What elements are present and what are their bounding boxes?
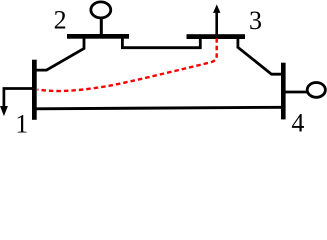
load L1 tap wire <box>4 89 33 108</box>
bus 1 <box>32 60 37 120</box>
load L1 arrowhead <box>0 106 8 116</box>
wire bus3-bus4 <box>238 38 282 75</box>
bus3 injection arrowhead <box>213 4 220 13</box>
bus 3 <box>187 34 246 39</box>
bus 4 <box>281 63 286 120</box>
generator G2 stem wire <box>100 17 103 36</box>
generator G4 circle <box>307 83 325 98</box>
svg-text:2: 2 <box>54 6 67 35</box>
red dashed transfer path bus1 to bus3 <box>38 38 217 91</box>
bus3 injection arrow stem <box>215 12 218 35</box>
generator G4 stem wire <box>285 91 308 94</box>
wire bus1-bus2 <box>37 37 85 70</box>
svg-text:3: 3 <box>249 6 262 35</box>
bus 2 <box>67 34 129 39</box>
wire bus1-bus4 <box>37 107 282 109</box>
svg-text:4: 4 <box>291 109 304 136</box>
svg-text:1: 1 <box>15 110 28 136</box>
wire bus2-bus3 <box>122 37 200 48</box>
generator G2 circle <box>91 2 111 18</box>
